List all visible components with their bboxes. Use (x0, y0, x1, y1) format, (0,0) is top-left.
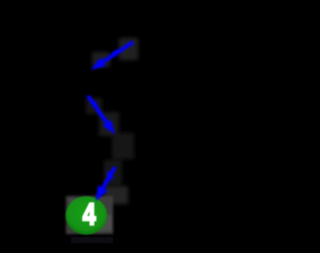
edge arrow C (node3 -> node4, pointing down-left onto circle) (96, 167, 116, 201)
jpeg-block artifact near arrow A head (92, 52, 110, 67)
jpeg-block artifact square behind node 4 (66, 196, 113, 234)
node 4: green circle (66, 196, 108, 234)
jpeg-block artifact along arrow B (86, 98, 102, 114)
edge arrow B (node2 -> node3, pointing down-right) (88, 96, 115, 135)
svg-text:4: 4 (83, 196, 96, 231)
faint dark caption under node 4 (71, 237, 113, 243)
edge arrow A (node1 -> node2, pointing down-left) (91, 42, 134, 70)
jpeg-block artifact near node 1 (arrow A tail) (86, 38, 138, 204)
jpeg-block artifact near arrow C (104, 160, 122, 184)
node 4 label: white digit 4 (83, 196, 96, 231)
